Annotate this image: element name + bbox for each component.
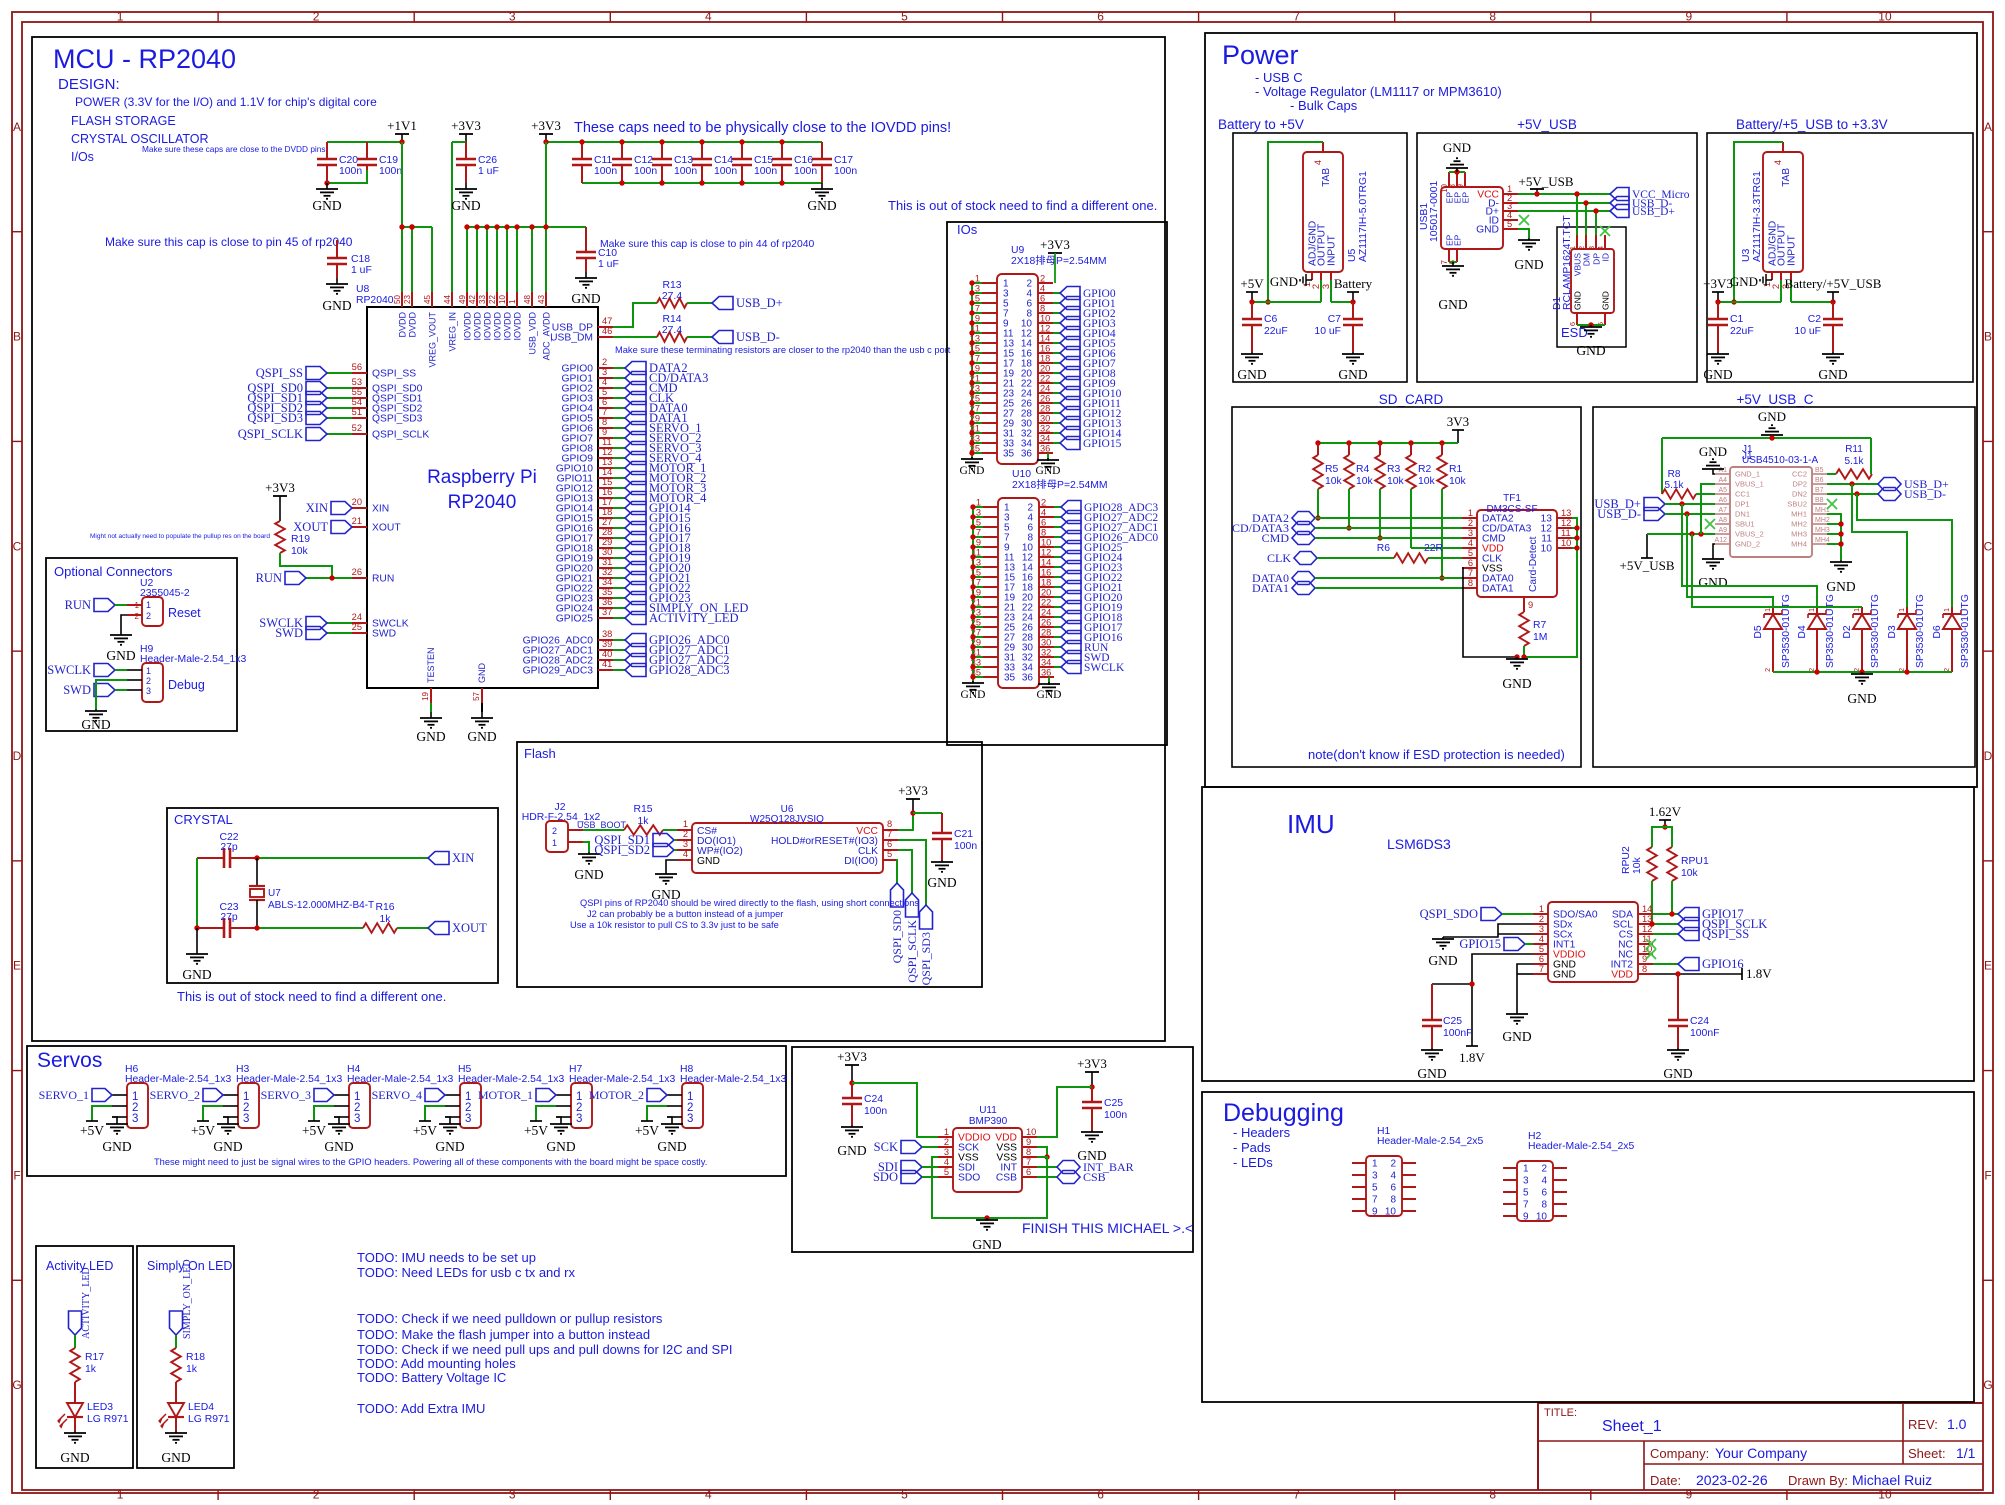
svg-text:GPIO15: GPIO15	[1083, 438, 1122, 450]
svg-text:2: 2	[1765, 668, 1772, 672]
svg-text:2: 2	[552, 826, 557, 836]
pin 6 of U10	[1027, 518, 1054, 534]
svg-text:6: 6	[1568, 322, 1577, 326]
svg-text:DP2: DP2	[1792, 480, 1807, 489]
svg-text:VBUS_2: VBUS_2	[1735, 530, 1764, 539]
svg-text:36: 36	[1041, 668, 1051, 678]
capacitor C24 (BMP)	[842, 1083, 887, 1125]
svg-text:D5: D5	[1753, 625, 1764, 639]
pin 42 IOVDD (top)	[468, 227, 483, 341]
wire H7 +5V	[536, 1106, 556, 1121]
svg-text:3: 3	[132, 1113, 138, 1125]
junction output	[1249, 299, 1254, 304]
capacitor C16	[772, 142, 817, 183]
svg-text:9: 9	[975, 314, 980, 324]
pin 2 of H7	[556, 1105, 571, 1107]
wire SDx SCx	[1443, 924, 1533, 937]
wire H4 pin3 to ground	[334, 1117, 339, 1122]
power +3V3 for U9	[1040, 237, 1070, 283]
junction U9 pin 33	[969, 440, 974, 445]
net label QSPI_SD3 (flash)	[919, 905, 933, 985]
pin 3 of H1	[1352, 1171, 1378, 1182]
junction U9 pin 31	[969, 430, 974, 435]
junction U10 pin 29	[970, 644, 975, 649]
text I/Os	[71, 150, 94, 164]
resistor R2	[1406, 443, 1435, 489]
wire U9 GND bus left	[971, 283, 973, 459]
text FLASH STORAGE	[71, 114, 176, 128]
svg-text:U11: U11	[979, 1105, 997, 1116]
text TODO: Add mounting holes	[357, 1356, 516, 1371]
wire H8 +5V	[647, 1106, 667, 1121]
svg-text:GND: GND	[574, 867, 603, 882]
svg-text:C15: C15	[754, 155, 773, 166]
svg-text:Card-Detect: Card-Detect	[1528, 536, 1539, 592]
svg-text:Flash: Flash	[524, 746, 556, 761]
junction U10 pin 1	[970, 504, 975, 509]
wire U10 to label GPIO16	[1054, 636, 1061, 638]
svg-text:2: 2	[313, 1488, 320, 1502]
svg-text:Optional Connectors: Optional Connectors	[54, 564, 173, 579]
svg-text:D2: D2	[1842, 625, 1853, 639]
svg-text:D3: D3	[1887, 625, 1898, 639]
svg-text:4: 4	[944, 1157, 949, 1167]
svg-text:QSPI_SCLK: QSPI_SCLK	[372, 430, 429, 441]
net label GPIO7	[1060, 357, 1116, 371]
svg-text:+3V3: +3V3	[265, 480, 295, 495]
svg-text:100n: 100n	[834, 166, 857, 177]
svg-text:1: 1	[146, 600, 151, 610]
pin 3 of U10	[973, 508, 1010, 524]
net label SDI	[878, 1160, 938, 1174]
svg-text:G: G	[1983, 1378, 1992, 1392]
junction U9 pin 5	[969, 300, 974, 305]
svg-text:C18: C18	[351, 254, 370, 265]
wire output rail	[1718, 301, 1781, 303]
svg-text:ID: ID	[1601, 253, 1611, 262]
wire SWCLK to H9	[115, 669, 127, 671]
svg-text:GND: GND	[1847, 691, 1876, 706]
svg-text:I/Os: I/Os	[71, 150, 94, 164]
svg-text:IOVDD: IOVDD	[463, 312, 473, 341]
svg-text:26: 26	[352, 567, 362, 577]
svg-text:9: 9	[1686, 1488, 1693, 1502]
svg-text:2: 2	[1041, 498, 1046, 508]
pin 17 of U9	[970, 354, 1015, 370]
wire U10 to label GPIO20	[1054, 596, 1061, 598]
svg-text:CC1: CC1	[1735, 490, 1750, 499]
capacitor C13	[652, 142, 697, 183]
junction U9 pin 17	[969, 360, 974, 365]
svg-text:USB_D-: USB_D-	[736, 330, 780, 344]
pin 8 of H1	[1390, 1195, 1416, 1206]
junction R1 net	[1439, 575, 1444, 580]
svg-text:9: 9	[1686, 10, 1693, 24]
pin 3 of U3	[1790, 272, 1792, 302]
svg-text:C19: C19	[379, 155, 398, 166]
connector H5 body	[458, 1064, 564, 1128]
pin 32 of U9	[1021, 424, 1053, 440]
svg-text:3: 3	[576, 1113, 582, 1125]
pin 27 of U10	[971, 628, 1016, 644]
svg-text:GPIO15: GPIO15	[1459, 937, 1501, 951]
svg-text:VDD: VDD	[1611, 970, 1633, 981]
svg-text:9: 9	[1372, 1207, 1378, 1218]
pin 26 RUN	[256, 567, 395, 585]
junction diode rail a	[1814, 669, 1819, 674]
svg-text:SWD: SWD	[372, 629, 396, 640]
svg-text:9: 9	[976, 538, 981, 548]
resistor R18	[171, 1348, 205, 1382]
pin 8 of U9	[1026, 304, 1053, 320]
net label RUN	[1061, 641, 1109, 655]
svg-text:+5V_USB_C: +5V_USB_C	[1737, 392, 1814, 407]
wire B7 to D6	[1857, 494, 1952, 607]
svg-text:F: F	[13, 1168, 20, 1182]
no-connect SBU2	[1827, 499, 1837, 509]
pin 4 of H1	[1390, 1171, 1416, 1182]
net label GPIO22	[1061, 571, 1123, 585]
svg-text:3: 3	[1468, 528, 1473, 538]
wire H3 +5V	[203, 1106, 223, 1121]
section title IMU	[1287, 809, 1335, 839]
svg-text:28: 28	[1041, 628, 1051, 638]
junction rail C12	[619, 139, 624, 185]
power +3V3 (BMP right)	[1077, 1056, 1107, 1087]
text TODO: IMU needs to be set up	[357, 1250, 536, 1265]
text DESIGN:	[58, 76, 120, 93]
IC U6 W25Q128JVSIQ body	[692, 804, 883, 873]
resistor R1	[1437, 443, 1466, 489]
wire U10 to label GPIO22	[1054, 576, 1061, 578]
wire R8 to CC1	[1696, 493, 1715, 495]
wire U10 to label SWD	[1054, 656, 1061, 658]
svg-text:1: 1	[1854, 608, 1861, 612]
svg-text:7: 7	[1523, 1200, 1529, 1211]
wire USB1 bottom ground	[1449, 261, 1457, 263]
pin 2 of U5	[1320, 272, 1322, 302]
svg-text:5: 5	[887, 849, 892, 859]
svg-text:E: E	[1984, 959, 1992, 973]
pin 18 of U10	[1022, 578, 1054, 594]
svg-text:LED3: LED3	[87, 1402, 113, 1413]
wire R14 to USB_D-	[687, 336, 712, 338]
svg-text:4: 4	[1596, 246, 1605, 250]
svg-text:44: 44	[443, 295, 452, 304]
net label SWD (debug)	[63, 683, 115, 697]
junction U9 pin 15	[969, 350, 974, 355]
pin 15 of U9	[970, 344, 1015, 360]
svg-text:52: 52	[352, 423, 362, 433]
wire U10 to label GPIO24	[1054, 556, 1061, 558]
wire B6 to USB_D+ label	[1827, 483, 1878, 485]
svg-text:26: 26	[1041, 618, 1051, 628]
pin 2 CD/DATA3 (TF1)	[1462, 518, 1532, 535]
svg-text:1 uF: 1 uF	[598, 259, 619, 270]
svg-text:1: 1	[944, 1127, 949, 1137]
wire U10 GND bus left	[972, 507, 974, 683]
wire U10 to label GPIO25	[1054, 546, 1061, 548]
connector U10 body	[998, 469, 1108, 688]
wire U10 to label GPIO27_ADC1	[1054, 526, 1061, 528]
svg-text:105017-0001: 105017-0001	[1429, 181, 1440, 242]
svg-text:GND: GND	[1237, 367, 1266, 382]
svg-text:These might need to just be si: These might need to just be signal wires…	[154, 1157, 707, 1167]
wire bottom diode rail	[1773, 671, 1952, 673]
svg-text:GPIO25: GPIO25	[556, 614, 593, 625]
wire RPU1 to SDA	[1671, 881, 1673, 914]
junction MH2	[1838, 521, 1843, 526]
svg-text:VREG_IN: VREG_IN	[448, 312, 458, 352]
svg-text:R2: R2	[1418, 464, 1432, 475]
pin 8 VSS (BMP390)	[996, 1147, 1037, 1164]
ground A1	[1699, 444, 1727, 470]
svg-text:32: 32	[1041, 648, 1051, 658]
pin B7 DN2 (J1)	[1792, 487, 1827, 499]
svg-text:QSPI_SD0: QSPI_SD0	[890, 910, 904, 963]
svg-text:1: 1	[1809, 608, 1816, 612]
pin 7 HOLD#orRESET#(IO3)	[771, 829, 898, 847]
pin 1 IOVDD (top)	[508, 227, 523, 341]
pin 47 USB_DP	[552, 316, 613, 334]
junction TF1 bus	[1574, 545, 1579, 550]
pin 9 of H2	[1503, 1212, 1529, 1223]
svg-text:6: 6	[1468, 558, 1473, 568]
svg-text:8: 8	[1041, 528, 1046, 538]
pin 1 of H2	[1503, 1164, 1529, 1175]
pin 37 GPIO25	[556, 607, 739, 625]
svg-text:Use a 10k resistor to pull CS: Use a 10k resistor to pull CS to 3.3v ju…	[570, 920, 779, 930]
junction C20 bottom	[324, 180, 329, 185]
power +3V3 (RUN pullup)	[265, 480, 295, 521]
svg-text:4: 4	[602, 377, 607, 387]
pin 2 of U10	[1027, 498, 1054, 514]
junction U10 pin 15	[970, 574, 975, 579]
pin 28 of U9	[1021, 404, 1053, 420]
svg-text:6: 6	[1390, 1183, 1396, 1194]
junction U10 pin 27	[970, 634, 975, 639]
svg-text:SWCLK: SWCLK	[1084, 662, 1125, 674]
svg-text:USB_DM: USB_DM	[550, 333, 593, 344]
svg-text:GND: GND	[102, 1139, 131, 1154]
svg-text:5: 5	[1372, 1183, 1378, 1194]
ground below C26	[451, 183, 480, 213]
svg-text:+5V: +5V	[1240, 276, 1264, 291]
svg-text:7: 7	[976, 528, 981, 538]
junction flash +3V3	[910, 810, 915, 815]
pin 4 of H2	[1541, 1176, 1567, 1187]
subsection title +5V_USB_C	[1737, 392, 1814, 407]
pin 30 GPIO19	[556, 547, 691, 565]
power +5V for H7	[524, 1121, 548, 1138]
capacitor C2	[1794, 302, 1843, 352]
svg-text:USB_BOOT: USB_BOOT	[577, 820, 627, 830]
svg-text:R11: R11	[1845, 444, 1863, 455]
junction sd rail R3	[1377, 440, 1382, 445]
svg-text:SDO: SDO	[958, 1173, 980, 1184]
pin 24 of U9	[1021, 384, 1053, 400]
svg-text:R18: R18	[186, 1352, 205, 1363]
net label XOUT (crystal)	[428, 921, 487, 935]
wire U10 to label RUN	[1054, 646, 1061, 648]
pin 13 (TF1 right)	[1541, 508, 1572, 525]
svg-text:R8: R8	[1668, 469, 1681, 480]
junction DN1	[1684, 511, 1689, 516]
net label GPIO15 (imu)	[1459, 937, 1533, 951]
pin 48 USB_VDD (top)	[523, 227, 538, 355]
resistor R7	[1519, 612, 1547, 646]
pin 6 GND (D1 bottom)	[1568, 291, 1583, 326]
svg-text:GND: GND	[1818, 367, 1847, 382]
junction C23 left	[194, 925, 199, 930]
junction U9 pin 11	[969, 330, 974, 335]
svg-text:QSPI_SDO: QSPI_SDO	[1420, 907, 1478, 921]
svg-text:5: 5	[901, 1488, 908, 1502]
wire U9 to label GPIO3	[1053, 322, 1060, 324]
pin 5 DI(IO0)	[844, 849, 898, 867]
pin B6 DP2 (J1)	[1792, 477, 1827, 489]
svg-text:INPUT: INPUT	[1787, 234, 1798, 266]
svg-text:USB4510-03-1-A: USB4510-03-1-A	[1742, 455, 1818, 466]
svg-text:2X18排母P=2.54MM: 2X18排母P=2.54MM	[1011, 254, 1107, 267]
pin 13 GPIO10	[556, 457, 707, 475]
power 1.8V (vddio)	[1459, 1046, 1485, 1065]
wire +1V1 down to DVDD	[401, 142, 403, 227]
wire D1 ground rail	[1577, 324, 1605, 326]
svg-text:C24: C24	[1690, 1016, 1709, 1027]
svg-text:D: D	[1984, 749, 1993, 763]
wire TF1 pin to bus	[1572, 537, 1577, 539]
svg-text:+5V: +5V	[635, 1123, 659, 1138]
net label ACTIVITY_LED	[69, 1267, 93, 1339]
svg-text:7: 7	[1293, 10, 1300, 24]
ground USB1 top	[1443, 140, 1471, 172]
wire vddio to C25	[1432, 983, 1472, 985]
text Debug	[168, 678, 205, 692]
pin 27 GPIO16	[556, 517, 691, 535]
svg-text:SWD: SWD	[275, 626, 303, 640]
pin 6 of H1	[1390, 1183, 1416, 1194]
resistor R15	[624, 804, 663, 835]
svg-text:+5V_USB: +5V_USB	[1517, 117, 1577, 132]
wire U10 to label GPIO18	[1054, 616, 1061, 618]
svg-text:QSPI_SD3: QSPI_SD3	[919, 932, 933, 985]
svg-text:1.0: 1.0	[1947, 1416, 1967, 1432]
pin 25 of U9	[970, 394, 1015, 410]
wire H8 pin3 to ground	[667, 1117, 672, 1122]
wire CLK to QSPI_SCLK	[898, 850, 912, 893]
svg-text:9: 9	[1528, 600, 1533, 610]
wire R5 down	[1317, 489, 1319, 518]
wire VDD r2	[1411, 547, 1462, 549]
ground crystal	[182, 928, 211, 982]
svg-text:AZ1117IH-5.0TRG1: AZ1117IH-5.0TRG1	[1358, 171, 1369, 262]
svg-text:12: 12	[602, 447, 612, 457]
pin 22 IOVDD (top)	[488, 227, 503, 341]
ground C6	[1237, 352, 1266, 382]
pin 9 VSS (BMP390)	[996, 1137, 1037, 1154]
pin 1 of H4	[334, 1094, 349, 1096]
svg-text:29: 29	[602, 537, 612, 547]
svg-text:10k: 10k	[1356, 476, 1374, 487]
wire VDD net	[1653, 973, 1742, 975]
net label GPIO20	[1061, 591, 1123, 605]
subsection title +5V_USB	[1517, 117, 1577, 132]
svg-text:12: 12	[1040, 324, 1050, 334]
pin 3 GPIO1	[562, 367, 709, 385]
svg-text:100n: 100n	[794, 166, 817, 177]
svg-text:3: 3	[1539, 924, 1544, 934]
svg-text:5.1k: 5.1k	[1845, 456, 1865, 467]
pin B5 CC2 (J1)	[1792, 467, 1827, 479]
diode D4 SP3530-01UTG	[1797, 594, 1836, 672]
svg-text:2: 2	[1468, 518, 1473, 528]
wire U9 to label GPIO4	[1053, 332, 1060, 334]
svg-text:3: 3	[1523, 1176, 1529, 1187]
svg-text:GND: GND	[1428, 953, 1457, 968]
svg-text:2355045-2: 2355045-2	[140, 588, 190, 599]
svg-text:A12: A12	[1715, 537, 1728, 544]
svg-text:27p: 27p	[220, 842, 238, 853]
svg-text:40: 40	[602, 649, 612, 659]
pin 29 of U10	[971, 638, 1016, 654]
svg-text:1: 1	[117, 1488, 124, 1502]
text U8 RP2040	[356, 284, 394, 306]
power 1.62V	[1649, 804, 1682, 827]
svg-text:XOUT: XOUT	[372, 523, 401, 534]
ground H3	[213, 1122, 242, 1154]
section title Debugging	[1223, 1099, 1344, 1127]
svg-text:U5: U5	[1347, 248, 1358, 262]
svg-text:4: 4	[705, 10, 712, 24]
svg-text:8: 8	[1026, 1147, 1031, 1157]
svg-text:TODO: Make the flash jumper in: TODO: Make the flash jumper into a butto…	[357, 1327, 650, 1342]
pin 5 GND (D1 bottom)	[1596, 291, 1611, 326]
pin 36 GPIO24	[556, 597, 749, 615]
svg-text:6: 6	[1541, 1188, 1547, 1199]
wire R4 down	[1348, 489, 1350, 528]
text TODO: Add Extra IMU	[357, 1401, 485, 1416]
svg-text:- USB C: - USB C	[1255, 70, 1303, 85]
capacitor C19	[357, 142, 402, 177]
power 1.8V (vdd)	[1742, 966, 1772, 981]
svg-text:C6: C6	[1264, 314, 1278, 325]
svg-text:2: 2	[1040, 274, 1045, 284]
wire C20/C19 bottom	[327, 170, 367, 183]
svg-text:10 uF: 10 uF	[1794, 326, 1821, 337]
svg-text:2: 2	[313, 10, 320, 24]
svg-text:2: 2	[146, 611, 151, 621]
svg-text:C7: C7	[1328, 314, 1342, 325]
svg-text:6: 6	[1041, 518, 1046, 528]
pin 33 IOVDD (top)	[478, 227, 493, 341]
resistor R17	[70, 1348, 104, 1382]
connector H8 body	[680, 1064, 786, 1128]
svg-text:GND: GND	[546, 1139, 575, 1154]
svg-text:2: 2	[1311, 284, 1321, 289]
svg-text:MH2: MH2	[1815, 517, 1830, 524]
resistor R14	[657, 314, 687, 342]
pin 3 of H8	[667, 1116, 682, 1118]
pin 2 GPIO0	[562, 357, 688, 375]
svg-text:34: 34	[602, 577, 612, 587]
svg-text:SWD: SWD	[63, 683, 91, 697]
net label GPIO11	[1060, 397, 1121, 411]
svg-text:2: 2	[602, 357, 607, 367]
pin 21 of U9	[970, 374, 1015, 390]
net label SWD	[1061, 651, 1110, 665]
svg-text:GND: GND	[1699, 444, 1727, 459]
